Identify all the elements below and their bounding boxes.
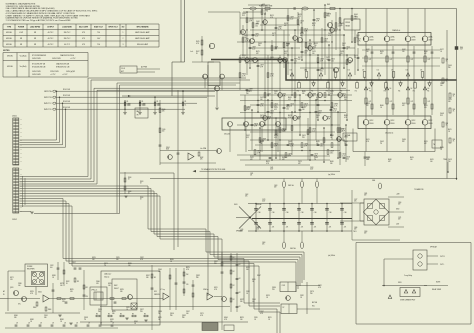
svg-text:100: 100	[186, 313, 189, 315]
svg-text:C619: C619	[448, 99, 452, 101]
svg-text:D662: D662	[340, 23, 344, 25]
svg-text:+63V: +63V	[396, 194, 400, 196]
svg-text:47P: 47P	[304, 145, 307, 147]
svg-text:R869: R869	[170, 259, 174, 261]
svg-text:1943 E: 1943 E	[369, 40, 373, 42]
svg-text:47P: 47P	[267, 118, 270, 120]
svg-text:R103 10K: R103 10K	[63, 101, 71, 103]
svg-text:R671: R671	[342, 94, 346, 96]
svg-text:1K: 1K	[140, 183, 142, 185]
svg-text:D651: D651	[270, 74, 274, 76]
svg-text:Q882: Q882	[182, 315, 186, 317]
svg-text:Q/2SC: Q/2SC	[428, 120, 432, 122]
svg-text:MODEL: MODEL	[6, 44, 12, 46]
svg-text:1943 E: 1943 E	[411, 40, 415, 42]
svg-text:Q615: Q615	[320, 69, 324, 71]
svg-text:Q642: Q642	[380, 141, 384, 143]
svg-text:P.DET: P.DET	[257, 275, 261, 277]
svg-text:47P: 47P	[288, 155, 291, 157]
svg-text:C/TS: C/TS	[367, 157, 370, 159]
svg-text:D619: D619	[304, 104, 308, 106]
svg-text:R2: R2	[239, 264, 241, 266]
svg-text:IC401: IC401	[166, 147, 170, 149]
svg-text:100: 100	[162, 131, 165, 133]
svg-text:K801: K801	[398, 282, 402, 284]
svg-text:100: 100	[366, 51, 369, 53]
svg-text:1K: 1K	[128, 193, 130, 195]
svg-text:C635: C635	[330, 91, 334, 93]
svg-text:100: 100	[286, 108, 289, 110]
svg-text:1K: 1K	[140, 199, 142, 201]
svg-text:330: 330	[240, 301, 243, 303]
svg-text:VR: VR	[137, 115, 139, 117]
svg-text:Q898: Q898	[84, 317, 88, 319]
svg-text:R634: R634	[286, 43, 290, 45]
svg-text:D6: D6	[420, 70, 422, 72]
svg-text:100: 100	[334, 30, 337, 32]
svg-text:R804: R804	[33, 307, 36, 309]
svg-text:D644: D644	[354, 14, 358, 16]
svg-text:R898: R898	[60, 319, 64, 321]
svg-text:C651: C651	[342, 154, 346, 156]
svg-text:1K: 1K	[440, 149, 442, 151]
svg-text:1K: 1K	[446, 81, 448, 83]
svg-text:RECTIFIER: RECTIFIER	[27, 269, 34, 271]
svg-text:T601: T601	[353, 231, 357, 233]
svg-text:47P: 47P	[424, 143, 427, 145]
svg-text:Q879: Q879	[310, 291, 314, 293]
svg-text:C618: C618	[326, 13, 330, 15]
svg-text:0.22: 0.22	[249, 60, 252, 62]
svg-text:R825: R825	[70, 289, 74, 291]
svg-text:5200 E: 5200 E	[369, 123, 373, 125]
svg-text:R102 10K: R102 10K	[63, 95, 71, 97]
svg-text:4.7K: 4.7K	[200, 315, 203, 317]
svg-text:Q651: Q651	[342, 43, 346, 45]
svg-text:Q634: Q634	[246, 91, 250, 93]
svg-text:100V: 100V	[256, 229, 259, 231]
svg-text:C887: C887	[140, 257, 144, 259]
svg-text:MUTE B: MUTE B	[312, 302, 317, 304]
svg-text:4.7K: 4.7K	[30, 293, 33, 295]
svg-text:Q669: Q669	[262, 139, 266, 141]
svg-text:D6: D6	[362, 70, 364, 72]
svg-text:C613: C613	[300, 21, 304, 23]
svg-text:D828: D828	[110, 319, 114, 321]
svg-text:SPKR VOLT: SPKR VOLT	[108, 27, 117, 29]
svg-text:R635: R635	[424, 105, 428, 107]
svg-text:Q699: Q699	[312, 94, 316, 96]
svg-text:C676: C676	[314, 154, 318, 156]
svg-text:47P: 47P	[316, 20, 319, 22]
svg-text:47P: 47P	[320, 60, 323, 62]
svg-text:C8: C8	[16, 323, 18, 325]
svg-text:1943 E: 1943 E	[428, 40, 432, 42]
svg-text:D628: D628	[302, 107, 306, 109]
svg-text:R614: R614	[314, 43, 318, 45]
svg-text:C8: C8	[40, 323, 42, 325]
svg-text:1K: 1K	[158, 271, 160, 273]
svg-text:C644: C644	[346, 47, 350, 49]
svg-text:0.22: 0.22	[255, 35, 258, 37]
svg-text:4.7K: 4.7K	[140, 259, 143, 261]
svg-text:10V: 10V	[70, 291, 73, 293]
svg-text:D613: D613	[284, 23, 288, 25]
svg-text:1K: 1K	[260, 143, 262, 145]
svg-text:1K: 1K	[134, 323, 136, 325]
svg-text:100: 100	[344, 143, 347, 145]
svg-text:KTC5198 2SF LM: KTC5198 2SF LM	[32, 64, 46, 66]
svg-text:4.7K: 4.7K	[214, 289, 217, 291]
svg-text:1K: 1K	[330, 109, 332, 111]
svg-text:0.22: 0.22	[274, 137, 277, 139]
svg-text:C60: C60	[314, 212, 317, 214]
svg-text:100: 100	[312, 53, 315, 55]
svg-text:D611: D611	[366, 139, 370, 141]
svg-text:MUTE: MUTE	[436, 282, 440, 284]
svg-text:1K: 1K	[170, 261, 172, 263]
svg-text:D673: D673	[244, 35, 248, 37]
svg-text:C861: C861	[44, 315, 48, 317]
svg-text:Q643: Q643	[314, 157, 318, 159]
svg-text:100V 100W: 100V 100W	[32, 74, 41, 76]
svg-text:100: 100	[410, 159, 413, 161]
svg-text:0.22: 0.22	[298, 16, 301, 18]
svg-text:RY: RY	[283, 307, 285, 309]
svg-text:63V: 63V	[364, 233, 366, 235]
svg-text:R1: R1	[142, 101, 144, 103]
svg-text:D6: D6	[290, 70, 292, 72]
svg-text:+/- 71V: +/- 71V	[50, 74, 56, 76]
svg-text:C60: C60	[286, 212, 289, 214]
svg-text:R2: R2	[233, 271, 235, 273]
svg-text:Q/2SC: Q/2SC	[411, 120, 415, 122]
svg-text:R680: R680	[388, 159, 392, 161]
svg-text:REG 4T: REG 4T	[114, 288, 119, 290]
svg-text:0.22: 0.22	[340, 130, 343, 132]
svg-text:100: 100	[430, 161, 433, 163]
svg-text:GN: GN	[20, 199, 22, 201]
svg-text:100: 100	[108, 285, 111, 287]
svg-text:47P: 47P	[284, 25, 287, 27]
svg-text:2SC5200 x4: 2SC5200 x4	[385, 133, 393, 135]
svg-text:R6: R6	[413, 91, 415, 93]
svg-text:KTD2058 2SB LM: KTD2058 2SB LM	[32, 67, 46, 69]
svg-text:POWER: POWER	[27, 266, 32, 268]
svg-text:330: 330	[116, 259, 119, 261]
svg-text:R6: R6	[355, 91, 357, 93]
svg-text:Q656: Q656	[246, 107, 250, 109]
svg-text:330: 330	[448, 101, 451, 103]
svg-text:D676: D676	[424, 141, 428, 143]
svg-text:10V: 10V	[274, 93, 277, 95]
svg-text:R643: R643	[288, 97, 292, 99]
svg-text:D612: D612	[284, 51, 288, 53]
svg-text:0.22: 0.22	[312, 130, 315, 132]
svg-text:R1: R1	[127, 101, 129, 103]
svg-text:D6: D6	[390, 88, 392, 90]
svg-text:100: 100	[316, 143, 319, 145]
svg-text:1K: 1K	[246, 293, 248, 295]
svg-text:330: 330	[302, 93, 305, 95]
svg-text:47P: 47P	[402, 105, 405, 107]
svg-text:1K: 1K	[330, 137, 332, 139]
svg-text:1K: 1K	[440, 51, 442, 53]
svg-text:Q825: Q825	[98, 309, 102, 311]
svg-text:Q653: Q653	[448, 159, 452, 161]
svg-text:40.7V 2: 40.7V 2	[48, 38, 54, 40]
svg-text:KTC: KTC	[18, 304, 21, 306]
svg-text:R6: R6	[398, 91, 400, 93]
svg-text:10V: 10V	[342, 45, 345, 47]
svg-text:R675: R675	[256, 51, 260, 53]
svg-text:INPUT D: INPUT D	[44, 109, 52, 111]
svg-text:R684: R684	[344, 115, 348, 117]
svg-text:OUT L: OUT L	[440, 264, 445, 266]
svg-text:Vcc(Rail): Vcc(Rail)	[20, 66, 27, 68]
svg-text:47P: 47P	[326, 15, 329, 17]
svg-text:4.7K: 4.7K	[186, 269, 189, 271]
svg-text:D845: D845	[252, 279, 256, 281]
svg-text:1K: 1K	[314, 159, 316, 161]
svg-text:47P: 47P	[402, 141, 405, 143]
svg-text:Q882: Q882	[196, 275, 200, 277]
svg-text:D616: D616	[304, 29, 308, 31]
svg-text:100: 100	[300, 35, 303, 37]
svg-text:100: 100	[346, 158, 349, 160]
svg-text:330: 330	[196, 277, 199, 279]
svg-text:750: 750	[97, 32, 100, 34]
svg-text:MODEL: MODEL	[6, 32, 12, 34]
svg-text:C639: C639	[340, 51, 344, 53]
svg-text:0.22: 0.22	[390, 59, 393, 61]
svg-text:1K: 1K	[446, 61, 448, 63]
svg-text:R6: R6	[369, 91, 371, 93]
svg-text:C mag Relay: C mag Relay	[404, 275, 412, 277]
svg-text:OUTPUT: OUTPUT	[47, 27, 54, 29]
svg-text:R823: R823	[240, 317, 244, 319]
svg-text:+/- 57V: +/- 57V	[62, 74, 68, 76]
svg-text:D642: D642	[290, 144, 294, 146]
svg-text:R660: R660	[424, 51, 428, 53]
svg-text:R614: R614	[333, 109, 337, 111]
svg-text:D6: D6	[391, 70, 393, 72]
svg-text:D6: D6	[411, 88, 413, 90]
svg-text:Q636: Q636	[304, 51, 308, 53]
svg-text:D836: D836	[52, 275, 56, 277]
svg-text:40.7V 2: 40.7V 2	[48, 32, 54, 34]
svg-text:280.7V 2: 280.7V 2	[64, 32, 71, 34]
svg-text:C8: C8	[64, 323, 66, 325]
svg-text:C8: C8	[100, 323, 102, 325]
svg-text:D6: D6	[304, 70, 306, 72]
svg-text:R611: R611	[448, 129, 452, 131]
svg-text:C653: C653	[320, 144, 324, 146]
svg-text:47P: 47P	[380, 53, 383, 55]
svg-text:R6: R6	[311, 91, 313, 93]
svg-text:0.22: 0.22	[342, 155, 345, 157]
svg-text:TP601: TP601	[443, 159, 447, 161]
svg-text:GN: GN	[20, 119, 22, 121]
svg-text:Q/2SC: Q/2SC	[390, 120, 394, 122]
svg-text:Q649: Q649	[330, 151, 334, 153]
svg-text:C648: C648	[346, 157, 350, 159]
svg-text:47P: 47P	[327, 118, 330, 120]
svg-text:100: 100	[354, 16, 357, 18]
svg-text:0.22: 0.22	[330, 93, 333, 95]
svg-text:D874: D874	[246, 267, 250, 269]
svg-text:100: 100	[110, 321, 113, 323]
svg-text:C696: C696	[304, 144, 308, 146]
svg-text:C807: C807	[72, 262, 76, 264]
svg-text:R676: R676	[327, 117, 331, 119]
svg-text:C622: C622	[260, 97, 264, 99]
svg-text:2: 2	[123, 38, 124, 40]
svg-text:4.7K: 4.7K	[328, 35, 331, 37]
svg-text:4.7K: 4.7K	[312, 25, 315, 27]
svg-text:INPUT C: INPUT C	[44, 103, 52, 105]
svg-text:R806: R806	[48, 309, 51, 311]
svg-text:4.7K: 4.7K	[366, 141, 369, 143]
svg-text:R811: R811	[268, 317, 272, 319]
svg-text:1K: 1K	[126, 309, 128, 311]
svg-text:Q665: Q665	[258, 43, 262, 45]
svg-text:100: 100	[448, 161, 451, 163]
svg-text:(up) 63Vdc: (up) 63Vdc	[328, 174, 335, 176]
svg-text:R812: R812	[66, 281, 70, 283]
svg-text:HOT: HOT	[121, 71, 124, 73]
svg-text:0.22: 0.22	[333, 110, 336, 112]
svg-text:1K: 1K	[380, 107, 382, 109]
svg-text:D847: D847	[146, 275, 150, 277]
svg-text:10V: 10V	[424, 107, 427, 109]
svg-text:GN: GN	[20, 178, 22, 180]
svg-text:GN: GN	[20, 144, 22, 146]
svg-text:10V: 10V	[214, 263, 217, 265]
svg-text:C630: C630	[330, 107, 334, 109]
svg-text:R8: R8	[96, 314, 98, 316]
svg-text:D677: D677	[272, 33, 276, 35]
svg-text:7.VOLTAGES NOTED are 2Vtyp at: 7.VOLTAGES NOTED are 2Vtyp at AC230V, DC…	[6, 19, 72, 22]
svg-text:C410: C410	[162, 129, 166, 131]
svg-text:R643: R643	[300, 33, 304, 35]
svg-text:100: 100	[304, 52, 307, 54]
svg-text:4.7K: 4.7K	[270, 17, 273, 19]
svg-text:47P: 47P	[298, 163, 301, 165]
svg-text:C624: C624	[316, 115, 320, 117]
svg-text:R672: R672	[312, 23, 316, 25]
svg-text:CN101: CN101	[12, 116, 17, 118]
svg-text:100: 100	[331, 60, 334, 62]
svg-text:-63V: -63V	[396, 224, 399, 226]
svg-text:R658: R658	[254, 124, 258, 126]
svg-text:471: 471	[329, 227, 332, 229]
svg-text:NE/IC: NE/IC	[114, 285, 118, 287]
svg-text:Q697: Q697	[249, 89, 253, 91]
svg-text:R101 10K: R101 10K	[63, 89, 71, 91]
svg-text:R6: R6	[326, 91, 328, 93]
svg-text:R2: R2	[233, 285, 235, 287]
svg-text:D677: D677	[298, 57, 302, 59]
svg-text:R665: R665	[302, 91, 306, 93]
svg-text:100: 100	[260, 99, 263, 101]
svg-text:R869: R869	[128, 263, 132, 265]
svg-text:R8: R8	[120, 314, 122, 316]
svg-text:GN: GN	[20, 153, 22, 155]
svg-text:Q643: Q643	[318, 111, 322, 113]
svg-text:FOR: FOR	[154, 291, 157, 293]
svg-text:330: 330	[170, 315, 173, 317]
svg-text:D642: D642	[331, 59, 335, 61]
svg-text:47P: 47P	[388, 161, 391, 163]
svg-text:R2: R2	[239, 278, 241, 280]
svg-text:Vcc(Rail): Vcc(Rail)	[20, 56, 27, 58]
svg-text:1K: 1K	[266, 297, 268, 299]
svg-text:Q871: Q871	[104, 263, 108, 265]
svg-text:C639: C639	[328, 33, 332, 35]
svg-text:Q683: Q683	[242, 13, 246, 15]
svg-text:D829: D829	[120, 289, 124, 291]
svg-text:D894: D894	[134, 321, 138, 323]
svg-text:1K: 1K	[52, 277, 54, 279]
svg-text:R659: R659	[410, 157, 414, 159]
svg-text:471: 471	[314, 227, 317, 229]
svg-text:R635: R635	[316, 141, 320, 143]
svg-text:D623: D623	[242, 55, 246, 57]
svg-text:BRIDGE: BRIDGE	[256, 204, 262, 206]
svg-text:0.22: 0.22	[411, 101, 414, 103]
svg-text:IN: IN	[3, 294, 4, 296]
svg-text:C653: C653	[290, 104, 294, 106]
svg-text:RLU: RLU	[312, 306, 315, 308]
svg-text:4.7K: 4.7K	[344, 117, 347, 119]
svg-text:0.22: 0.22	[252, 48, 255, 50]
svg-text:1K: 1K	[252, 281, 254, 283]
svg-text:47P: 47P	[254, 125, 257, 127]
svg-text:IC801: IC801	[38, 292, 42, 294]
svg-text:RY601: RY601	[346, 22, 351, 24]
svg-text:330: 330	[182, 317, 185, 319]
svg-text:100V (pF)W: 100V (pF)W	[66, 71, 75, 73]
svg-text:47P: 47P	[274, 145, 277, 147]
svg-text:100: 100	[98, 311, 101, 313]
svg-text:CP Reg IC: CP Reg IC	[91, 290, 97, 292]
svg-text:Q680: Q680	[402, 139, 406, 141]
svg-text:4.7K: 4.7K	[196, 43, 199, 45]
svg-text:TH: TH	[433, 144, 435, 146]
svg-text:R12: R12	[86, 287, 89, 289]
svg-text:4.7 Cap: 4.7 Cap	[160, 289, 165, 291]
svg-text:C678: C678	[312, 51, 316, 53]
svg-text:GN: GN	[20, 157, 22, 159]
svg-text:47P: 47P	[366, 105, 369, 107]
svg-text:C882: C882	[300, 295, 304, 297]
svg-text:R637: R637	[286, 107, 290, 109]
svg-text:D868: D868	[30, 319, 34, 321]
svg-text:R6: R6	[297, 91, 299, 93]
svg-text:330: 330	[258, 45, 261, 47]
svg-text:47P: 47P	[257, 152, 260, 154]
svg-text:471: 471	[272, 227, 275, 229]
svg-text:D668: D668	[330, 135, 334, 137]
svg-text:0.22: 0.22	[290, 18, 293, 20]
svg-text:D811: D811	[214, 287, 218, 289]
svg-text:5200 E: 5200 E	[390, 123, 394, 125]
svg-text:100V 120W: 100V 120W	[52, 58, 61, 60]
svg-text:1K: 1K	[128, 179, 130, 181]
svg-text:1K: 1K	[453, 111, 455, 113]
svg-text:R1: R1	[185, 101, 187, 103]
